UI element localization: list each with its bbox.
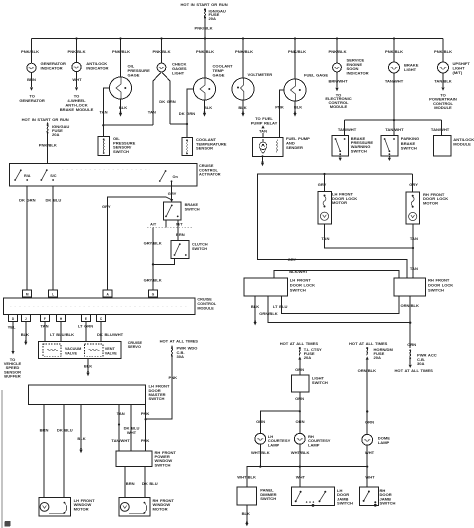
svg-text:BLK/WHT: BLK/WHT [289, 269, 308, 274]
svg-text:TAN/WHT: TAN/WHT [431, 127, 450, 132]
svg-text:BLK: BLK [204, 105, 212, 110]
sensor OIL PRESSURE SENSOR/SWITCH [98, 136, 136, 155]
svg-text:HOT AT ALL TIMES: HOT AT ALL TIMES [349, 341, 388, 346]
svg-text:ORN/BLK: ORN/BLK [400, 303, 419, 308]
fuse T.L CTSY 20A [298, 347, 322, 360]
svg-text:DK GRN: DK GRN [159, 99, 176, 104]
svg-text:S/C: S/C [50, 174, 57, 178]
wire TAN/WHT brake light down [385, 73, 404, 120]
node TO FUEL PUMP RELAY [251, 116, 278, 137]
switch BRAKE SWITCH [163, 202, 199, 220]
svg-text:PNK/BLK: PNK/BLK [68, 49, 86, 54]
fuse HORN/DM 20A [366, 347, 394, 360]
gauge COOLANT TEMP GAGE [194, 64, 234, 100]
switch CLUTCH SWITCH [171, 241, 208, 259]
svg-text:WHT: WHT [365, 450, 375, 455]
wire DK GRN coolant gauge lead [179, 89, 196, 124]
wire PNK/BLK drop to oil pressure gage [112, 39, 130, 78]
svg-text:SWITCH: SWITCH [337, 501, 353, 506]
svg-text:SWITCH: SWITCH [290, 288, 306, 293]
svg-text:C: C [100, 317, 103, 321]
wire clutch switch to GRY/BLK junction [153, 258, 175, 264]
wire WHT/BLK LH courtesy to bus [251, 444, 270, 467]
svg-text:TAN: TAN [117, 411, 125, 416]
svg-text:BLK: BLK [242, 511, 250, 516]
svg-text:BLK: BLK [84, 364, 92, 369]
gauge VOLTMETER [232, 72, 272, 100]
wire BRN master switch to LH window motor [40, 405, 49, 498]
node HOT AT ALL TIMES (power window) [160, 338, 199, 343]
wire TAN LH motor to link [321, 224, 414, 249]
wire GRY drop to RH door lock motor [409, 174, 418, 192]
svg-text:ORN: ORN [256, 419, 265, 424]
wire PNK/BLK drop to coolant temp gage [196, 39, 214, 79]
terminal L [49, 290, 58, 297]
svg-text:INDICATOR: INDICATOR [41, 66, 63, 71]
node HOT AT ALL TIMES (ctsy fuse) [280, 341, 319, 346]
wire TAN RH motor to RH door lock switch [410, 224, 418, 278]
svg-text:G: G [152, 292, 155, 296]
wire WHT/BLK RH courtesy to bus [291, 444, 310, 467]
svg-text:D: D [12, 317, 15, 321]
motor RH FRONT DOOR LOCK MOTOR [406, 192, 448, 224]
svg-text:BRN/WHT: BRN/WHT [328, 78, 348, 83]
svg-text:MODULE: MODULE [197, 307, 214, 311]
svg-text:CRUISE: CRUISE [128, 341, 143, 345]
switch PARKING BRAKE SWITCH [381, 136, 419, 156]
lamp BRAKE LIGHT [389, 62, 419, 73]
svg-text:PNK/BLK: PNK/BLK [288, 49, 306, 54]
node bus junctions [75, 37, 395, 39]
svg-text:F: F [44, 317, 46, 321]
svg-text:20A: 20A [304, 355, 312, 360]
svg-text:SWITCH: SWITCH [149, 396, 165, 401]
svg-text:ORN/BLK: ORN/BLK [358, 368, 377, 373]
svg-text:VALVE: VALVE [65, 351, 78, 355]
wire WHT dome lamp to bus [365, 445, 375, 467]
module CRUISE CONTROL MODULE [3, 298, 216, 315]
svg-text:PNK: PNK [169, 375, 178, 380]
motor LH FRONT WINDOW MOTOR [39, 498, 95, 516]
terminal G [149, 290, 158, 297]
ground BLK panel dimmer switch [242, 505, 250, 526]
wire TAN/BLK to powertrain control module [429, 73, 457, 110]
svg-text:TAN: TAN [148, 109, 156, 114]
wire DK BLU/WHT master to RH window switch [124, 405, 140, 452]
wire BLK/WHT LH switch to RH switch [274, 269, 399, 278]
svg-text:BLK: BLK [119, 105, 127, 110]
wire PNK/BLK drop to service engine soon [329, 39, 347, 64]
svg-text:WHT: WHT [127, 430, 137, 435]
ground fuel pump [261, 155, 264, 166]
wire DK BLU activator to terminal L [46, 186, 62, 290]
svg-text:SWITCH: SWITCH [312, 380, 328, 385]
svg-text:DK BLU: DK BLU [46, 197, 62, 202]
switch LH DOOR JAMB SWITCH [292, 487, 354, 507]
svg-text:PNK: PNK [141, 438, 150, 443]
svg-text:SWITCH: SWITCH [380, 501, 396, 506]
svg-text:M/T: M/T [176, 222, 183, 226]
wire GRY/BLK to terminal G [144, 227, 162, 290]
svg-text:PNK/BLK: PNK/BLK [329, 49, 347, 54]
ground BLK fuel gauge [293, 101, 302, 117]
module CRUISE SERVO [38, 341, 142, 359]
breaker PWR ACC C.B. 30A [409, 349, 437, 368]
wire DK GRN activator to terminal M [19, 186, 36, 290]
svg-text:MOTOR: MOTOR [153, 507, 168, 512]
svg-text:DK GRN: DK GRN [179, 111, 196, 116]
wire WHT bus to RH door jamb switch [365, 467, 375, 487]
terminal A [103, 290, 112, 297]
lamp SERVICE ENGINE SOON INDICATOR [333, 57, 369, 75]
svg-text:20A: 20A [374, 355, 382, 360]
svg-text:TAN/BLK: TAN/BLK [434, 78, 452, 83]
wire PNK master to RH window switch [141, 405, 150, 452]
svg-text:BLK: BLK [294, 104, 302, 109]
svg-text:HOT AT ALL TIMES: HOT AT ALL TIMES [395, 368, 434, 373]
wire LT BLU/BLK terminal H to servo [50, 322, 74, 342]
svg-text:DK BLU: DK BLU [57, 428, 73, 433]
svg-text:PNK/BLK: PNK/BLK [385, 49, 403, 54]
wire TAN / TAN/WHT master to RH window switch [111, 405, 130, 452]
switch PANEL DIMMER SWITCH [237, 487, 277, 505]
wire DK BLU RH window switch to motor [142, 467, 158, 498]
svg-text:HOT IN START OR RUN: HOT IN START OR RUN [181, 2, 228, 7]
node HOT AT ALL TIMES (pwr acc) [395, 368, 434, 373]
svg-text:DK BLU/WHT: DK BLU/WHT [97, 332, 124, 337]
svg-text:INDICATOR: INDICATOR [347, 71, 369, 76]
svg-text:TAN/WHT: TAN/WHT [338, 127, 357, 132]
svg-text:TAN/WHT: TAN/WHT [111, 438, 130, 443]
wire PNK/BLK fuse to bus [195, 18, 213, 38]
switch R/A [14, 169, 31, 181]
wire GRY drop to LH door lock motor [318, 174, 327, 192]
svg-text:BRN: BRN [176, 232, 185, 237]
svg-text:ORN: ORN [296, 419, 305, 424]
svg-text:PNK/BLK: PNK/BLK [153, 49, 171, 54]
module ANTILOCK MODULE [434, 136, 474, 156]
terminal C [97, 315, 106, 322]
gauge OIL PRESSURE GAGE [110, 64, 151, 99]
wire TAN oil gauge lead [99, 88, 109, 125]
svg-text:30A: 30A [417, 361, 425, 366]
wire WHT/BLK lamp return bus [237, 466, 368, 488]
svg-text:A/T: A/T [150, 222, 157, 226]
svg-text:WHT/BLK: WHT/BLK [251, 450, 270, 455]
switch LIGHT SWITCH [292, 375, 328, 392]
fuse IGN/GAU 20A (top) [204, 8, 226, 21]
svg-text:LT BLU/BLK: LT BLU/BLK [50, 332, 74, 337]
svg-text:TAN: TAN [321, 236, 329, 241]
wire TAN/WHT to antilock module [431, 120, 450, 136]
wire TAN check light left branch [148, 72, 162, 126]
component FUEL PUMP AND SENDER [253, 136, 311, 156]
svg-text:J: J [25, 317, 27, 321]
wire PNK/BLK drop to antilock indicator [68, 39, 86, 63]
wire PNK/BLK drop to check gages light [153, 39, 171, 64]
svg-text:PNK: PNK [275, 104, 284, 109]
wire WHT bus to LH door jamb switch [296, 467, 306, 487]
svg-text:TAN/WHT: TAN/WHT [385, 127, 404, 132]
switch On (cruise) [159, 170, 179, 182]
svg-text:TAN: TAN [259, 128, 267, 133]
svg-text:SENDER: SENDER [286, 145, 303, 150]
svg-text:LT GRN: LT GRN [78, 324, 93, 329]
lamp UPSHIFT LIGHT (M/T) [438, 61, 471, 75]
svg-text:SENSOR: SENSOR [196, 146, 213, 151]
motor RH FRONT WINDOW MOTOR [119, 498, 174, 516]
svg-text:TAN/WHT: TAN/WHT [385, 78, 404, 83]
wire BRN RH window switch to motor [125, 467, 135, 498]
ground parking brake switch [388, 156, 391, 161]
svg-text:TAN: TAN [99, 109, 107, 114]
wire ORN/BLK RH switch to PWR ACC breaker [400, 296, 419, 348]
svg-text:TAN: TAN [410, 266, 418, 271]
svg-text:ORN: ORN [295, 367, 304, 372]
svg-text:GRY/BLK: GRY/BLK [144, 241, 162, 246]
svg-text:LT BLU: LT BLU [273, 304, 288, 309]
sensor COOLANT TEMPERATURE SENSOR [182, 137, 227, 155]
svg-text:20A: 20A [52, 132, 60, 137]
svg-text:On: On [173, 175, 179, 179]
svg-text:SWITCH: SWITCH [192, 247, 207, 251]
terminal H [57, 315, 66, 322]
svg-text:LAMP: LAMP [268, 442, 280, 447]
wire brake switch pins to A/T M/T select [147, 220, 193, 227]
lamp LH COURTESY LAMP [255, 433, 291, 447]
svg-text:SERVO: SERVO [128, 345, 141, 349]
svg-text:ORN: ORN [407, 342, 416, 347]
wire DK BLU master switch to LH window motor [57, 405, 73, 498]
breaker PWR WDO C.B. 30A [171, 345, 197, 359]
svg-text:ACTIVATOR: ACTIVATOR [199, 173, 221, 177]
svg-text:GRY: GRY [168, 191, 177, 196]
wire TAN junction bus to oil sensor [102, 124, 153, 136]
wire TAN/WHT to parking brake switch [385, 120, 404, 136]
wire PNK/BLK drop to brake light [385, 39, 403, 63]
svg-text:LIGHT: LIGHT [404, 67, 417, 72]
svg-text:MODULE: MODULE [330, 104, 348, 109]
svg-text:BRN: BRN [40, 428, 49, 433]
svg-text:VOLTMETER: VOLTMETER [248, 72, 273, 77]
wire ORN branch to LH courtesy lamp [256, 411, 300, 434]
svg-text:WHT: WHT [72, 77, 82, 82]
wire DK GRN check light right branch [159, 72, 176, 124]
wire GRY branch to terminal A [102, 197, 172, 290]
ground BLK oil gauge [119, 99, 127, 117]
scan artifact left edge [2, 390, 11, 528]
svg-text:GRY: GRY [288, 257, 297, 262]
svg-text:SWITCH: SWITCH [401, 145, 417, 150]
wire PNK fuel gauge lead [275, 90, 284, 137]
svg-text:GRY/BLK: GRY/BLK [144, 278, 162, 283]
svg-text:GRY: GRY [318, 182, 327, 187]
lamp ANTILOCK INDICATOR [72, 61, 109, 72]
svg-text:M: M [26, 292, 29, 296]
svg-text:H: H [60, 317, 63, 321]
terminal D [9, 315, 18, 322]
wire BRN to generator [19, 72, 45, 103]
wire WHT to anti-lock brake module [60, 72, 94, 112]
switch RH DOOR JAMB SWITCH [359, 487, 395, 507]
wire GRY door lock top bus [258, 173, 413, 278]
wire PNK/BLK fuse to cruise activator [39, 133, 57, 163]
svg-text:GENERATOR: GENERATOR [19, 98, 45, 103]
node HOT AT ALL TIMES (horn fuse) [349, 341, 388, 346]
svg-text:PNK/BLK: PNK/BLK [112, 49, 130, 54]
svg-text:GRY: GRY [102, 204, 111, 209]
svg-text:PNK/BLK: PNK/BLK [196, 49, 214, 54]
wire LT BLU LH switch to RH switch [273, 296, 399, 313]
terminal F [40, 315, 49, 322]
module CRUISE CONTROL ACTIVATOR [10, 164, 221, 187]
svg-text:CRUISE: CRUISE [197, 298, 212, 302]
svg-text:SWITCH: SWITCH [260, 496, 276, 501]
svg-text:WHT/BLK: WHT/BLK [291, 450, 310, 455]
svg-text:HOT AT ALL TIMES: HOT AT ALL TIMES [160, 338, 199, 343]
wire TAN/WHT warning bus [345, 119, 442, 121]
svg-text:PNK: PNK [141, 411, 150, 416]
wire PNK/BLK drop to voltmeter [235, 39, 253, 79]
wire DK GRN link from check light [170, 123, 188, 138]
svg-text:LAMP: LAMP [308, 442, 320, 447]
svg-text:WHT/BLK: WHT/BLK [237, 474, 256, 479]
ground BLK LH door lock switch [251, 296, 259, 325]
svg-text:BRAKE MODULE: BRAKE MODULE [60, 107, 94, 112]
switch BRAKE PRESSURE WARNING SWITCH [332, 136, 373, 156]
wire PNK/BLK drop to upshift light [434, 39, 452, 63]
svg-text:FUEL GAGE: FUEL GAGE [304, 72, 328, 77]
switch LH FRONT DOOR LOCK SWITCH [244, 277, 315, 296]
svg-text:LIGHT: LIGHT [172, 70, 185, 75]
svg-text:MODULE: MODULE [434, 105, 452, 110]
terminal M [23, 290, 32, 297]
svg-text:SWITCH: SWITCH [428, 288, 444, 293]
svg-text:MOTOR: MOTOR [332, 200, 347, 205]
svg-text:A: A [107, 292, 110, 296]
svg-text:BLK: BLK [77, 436, 85, 441]
wire ORN fuse to light switch [295, 360, 304, 375]
wire ORN light switch to lamps [295, 392, 304, 434]
svg-text:WHT: WHT [296, 474, 306, 479]
svg-text:ORN: ORN [295, 396, 304, 401]
fuse IGN/GAU 20A (cruise) [47, 122, 70, 137]
wire GRY activator to brake switch [168, 181, 177, 202]
svg-text:ORN/BLK: ORN/BLK [259, 311, 278, 316]
svg-text:PNK/BLK: PNK/BLK [235, 49, 253, 54]
svg-text:SWITCH: SWITCH [185, 208, 200, 212]
wire ORN/BLK fuse to dome lamp [358, 360, 377, 435]
module LH FRONT DOOR MASTER SWITCH [29, 384, 170, 405]
wire LT GRN terminal E to servo [78, 322, 93, 342]
svg-text:CONTROL: CONTROL [197, 302, 216, 306]
ground BLK terminal J [21, 322, 29, 346]
wire ORN/BLK LH switch to junction [259, 296, 410, 323]
lamp RH COURTESY LAMP [294, 433, 330, 447]
svg-text:SWITCH: SWITCH [351, 148, 367, 153]
svg-text:ORN: ORN [365, 419, 374, 424]
svg-text:BLK: BLK [21, 332, 29, 337]
ground brake pressure warning switch [339, 156, 342, 161]
svg-text:LAMP: LAMP [378, 440, 390, 445]
svg-text:PUMP RELAY: PUMP RELAY [251, 121, 278, 126]
node HOT IN START OR RUN (top feed) [181, 2, 228, 7]
svg-text:TAN: TAN [40, 324, 48, 329]
svg-text:L: L [52, 292, 54, 296]
svg-text:R/A: R/A [24, 174, 31, 178]
lamp GENERATOR INDICATOR [27, 61, 66, 72]
svg-text:PNK/BLK: PNK/BLK [21, 49, 39, 54]
svg-text:SWITCH: SWITCH [155, 462, 171, 467]
svg-text:BRN: BRN [27, 77, 36, 82]
svg-text:DK BLU: DK BLU [142, 481, 158, 486]
svg-text:E: E [85, 317, 87, 321]
svg-text:WHT: WHT [365, 474, 375, 479]
terminal E [82, 315, 91, 322]
ground BLK master switch [77, 405, 85, 454]
svg-text:BRN: BRN [126, 481, 135, 486]
switch S/C [40, 169, 56, 181]
svg-text:MODULE: MODULE [453, 142, 471, 147]
svg-text:TAN: TAN [410, 236, 418, 241]
lamp DOME LAMP [362, 434, 390, 445]
svg-text:PNK/BLK: PNK/BLK [39, 143, 57, 148]
wire BRN/WHT to ECM [325, 72, 351, 109]
svg-text:BUFFER: BUFFER [4, 374, 20, 379]
gauge FUEL GAGE [284, 72, 328, 101]
svg-text:YEL: YEL [8, 324, 16, 329]
wire TAN terminal F to servo [40, 322, 48, 342]
svg-text:BLK: BLK [238, 105, 246, 110]
svg-text:VALVE: VALVE [105, 351, 118, 355]
ground BLK cruise servo [84, 359, 92, 377]
node HOT IN START OR RUN (cruise feed) [22, 117, 69, 122]
switch RH FRONT DOOR LOCK SWITCH [394, 277, 453, 296]
svg-text:DK GRN: DK GRN [19, 197, 36, 202]
wire PNK breaker to master switch [146, 357, 178, 420]
motor LH FRONT DOOR LOCK MOTOR [318, 191, 358, 224]
svg-text:20A: 20A [209, 16, 217, 21]
svg-text:HOT AT ALL TIMES: HOT AT ALL TIMES [280, 341, 319, 346]
svg-text:INDICATOR: INDICATOR [86, 66, 108, 71]
svg-text:PNK/BLK: PNK/BLK [195, 26, 213, 31]
svg-text:MOTOR: MOTOR [74, 507, 89, 512]
svg-text:GAGE: GAGE [128, 72, 140, 77]
lamp CHECK GAGES LIGHT [157, 61, 187, 75]
wire YEL to vehicle speed sensor buffer [4, 322, 22, 379]
svg-text:GAGE: GAGE [213, 72, 225, 77]
wire BRN to clutch switch [176, 227, 185, 240]
svg-text:SWITCH: SWITCH [113, 149, 129, 154]
svg-text:30A: 30A [177, 354, 185, 359]
module RH FRONT POWER WINDOW SWITCH [116, 450, 176, 468]
svg-text:GRY: GRY [409, 182, 418, 187]
ground BLK voltmeter [238, 100, 246, 117]
wire TAN/WHT to brake pressure warning switch [338, 120, 357, 136]
ground BLK coolant gauge [203, 100, 212, 117]
wire DK BLU/WHT terminal C to servo [97, 322, 124, 342]
wire PNK/BLK drop to fuel gage [288, 39, 306, 80]
terminal J [21, 315, 30, 322]
svg-text:HOT IN START OR RUN: HOT IN START OR RUN [22, 117, 69, 122]
wire PNK/BLK drop to generator indicator [21, 39, 39, 64]
wire main PNK/BLK bus [32, 38, 444, 40]
svg-text:BLK: BLK [251, 304, 259, 309]
svg-text:PNK/BLK: PNK/BLK [434, 49, 452, 54]
svg-text:(M/T): (M/T) [453, 70, 463, 75]
svg-text:MOTOR: MOTOR [423, 201, 438, 206]
